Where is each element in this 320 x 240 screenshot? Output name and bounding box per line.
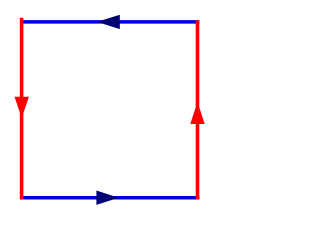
arrowhead right, pointing up (red) — [190, 102, 204, 124]
arrowhead top, pointing left (navy) — [97, 15, 120, 29]
wire bottom (blue) — [20, 196, 199, 200]
arrowhead bottom, pointing right (navy) — [96, 191, 118, 205]
wire left (red) — [20, 18, 24, 200]
arrowhead left, pointing down (red) — [15, 97, 29, 118]
wire top (blue) — [20, 20, 199, 24]
wire right (red) — [196, 20, 200, 199]
